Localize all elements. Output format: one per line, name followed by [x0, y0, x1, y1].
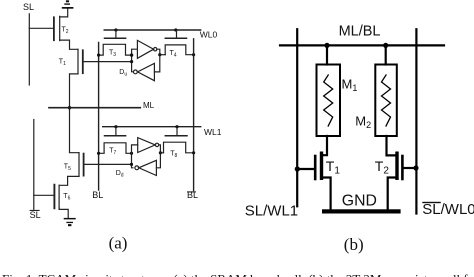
transistor T1 channel [77, 49, 79, 74]
node dot WL1-T8 [175, 125, 178, 128]
transistor T8 channel hat [164, 142, 194, 153]
label T6 [63, 193, 70, 202]
wire T2 source to T1 drain [60, 40, 78, 49]
svg-text:M1: M1 [342, 77, 358, 94]
wire forward output to T4 [154, 49, 159, 72]
svg-text:WL1: WL1 [204, 127, 222, 137]
svg-text:T1: T1 [59, 58, 66, 67]
label T5 [64, 164, 71, 173]
transistor T2 gate bar [401, 156, 404, 179]
label WL0 [200, 29, 218, 39]
svg-text:T5: T5 [64, 164, 71, 173]
wire T1 gate wire [84, 61, 132, 63]
wire ML line [49, 107, 140, 109]
transistor T6 gate bar [53, 185, 55, 209]
transistor T3 gate stub and bar [115, 30, 117, 37]
memristor M1 box [317, 65, 341, 137]
node SL label [23, 2, 34, 12]
node dot T7 left [97, 152, 100, 155]
wire T1 gate wire [298, 168, 314, 170]
svg-text:Du: Du [119, 69, 127, 78]
svg-text:(a): (a) [109, 234, 128, 253]
svg-text:Dd: Dd [116, 170, 124, 179]
ground symbol [64, 218, 76, 226]
transistor T2 channel [59, 16, 61, 40]
node dot T1 gate [295, 166, 300, 171]
svg-text:SL/WL1: SL/WL1 [245, 203, 298, 220]
label T2b [375, 158, 390, 177]
wire T2 gate wire [404, 167, 416, 169]
label WL1 [204, 127, 222, 137]
label Dd [116, 170, 124, 179]
svg-text:ML: ML [143, 101, 155, 110]
transistor T7 gate stub and bar [115, 127, 117, 135]
svg-text:ML/BL: ML/BL [339, 24, 381, 40]
node dot T4 stub [158, 53, 161, 56]
label T7 [109, 148, 116, 157]
node dot WL1-T7 [114, 125, 117, 128]
wire ML/BL rail [280, 44, 444, 46]
label T3 [109, 49, 116, 58]
transistor T4 channel hat [165, 45, 193, 55]
label ML/BL [339, 24, 381, 40]
label T2 [62, 27, 69, 36]
label T8 [170, 151, 177, 160]
wire SL vertical line [28, 14, 30, 85]
label SLbar/WL0 [422, 201, 474, 218]
transistor T5 channel [78, 153, 80, 177]
memristor M2 box [375, 65, 397, 137]
label BL [92, 190, 103, 200]
memristor M2 zigzag [382, 75, 391, 126]
transistor T8 gate stub and bar [176, 127, 178, 135]
svg-text:T2: T2 [375, 158, 390, 177]
wire SL/WL1 vertical line [296, 29, 298, 206]
label BLbar [187, 190, 198, 200]
label GND [342, 193, 377, 210]
wire T2 drain to VDD [60, 9, 68, 17]
wire M2 bottom to T2 drain [387, 136, 398, 155]
transistor T1 channel bar [320, 153, 323, 178]
svg-text:T3: T3 [109, 49, 116, 58]
transistor T7 channel hat [99, 143, 132, 154]
wire T8 left stub [160, 152, 163, 154]
inverter forward bottom bubble [155, 143, 158, 146]
label SLbar [30, 210, 41, 220]
transistor T3 channel hat [99, 44, 132, 55]
wire M1 top [326, 45, 328, 64]
wire T5 gate wire [85, 163, 132, 165]
inverter feedback top triangle [138, 63, 155, 80]
node dot T2 gate [413, 165, 418, 170]
label M1 [342, 77, 358, 94]
wire M1 bottom to T1 drain [322, 136, 328, 155]
power VDD symbol [62, 0, 74, 8]
transistor T1 gate bar [82, 50, 84, 73]
svg-text:Fig. 1. TCAM circuit struct: Fig. 1. TCAM circuit structures: (a) the… [2, 272, 474, 277]
node dot WL0-T3 [114, 28, 117, 31]
ground GND bar [322, 209, 401, 213]
inverter forward top triangle [137, 40, 153, 58]
node junction dot ML [68, 106, 71, 109]
label ML [143, 101, 155, 110]
wire T4 left stub [160, 54, 165, 56]
wire BLbar vertical line [193, 39, 195, 191]
svg-text:SL/WL0: SL/WL0 [422, 201, 474, 218]
svg-text:M2: M2 [355, 114, 371, 131]
label SL/WL1 [245, 203, 298, 220]
transistor Q T2 gate bar [53, 17, 55, 40]
wire SLbar vertical line [33, 120, 35, 210]
wire forward output to T8 [156, 145, 160, 168]
label T1 [59, 58, 66, 67]
node dot T7 right [130, 152, 133, 155]
node dot T4 right [192, 53, 195, 56]
inverter feedback top bubble [134, 70, 138, 74]
svg-text:T2: T2 [62, 27, 69, 36]
transistor T1 gate bar [314, 156, 317, 179]
wire latch left node vertical top [132, 49, 137, 72]
svg-text:BL: BL [187, 190, 198, 200]
inverter feedback bottom bubble [135, 166, 139, 170]
svg-text:WL0: WL0 [200, 29, 218, 39]
node dot rail-M2 [383, 43, 388, 48]
svg-text:T8: T8 [170, 151, 177, 160]
wire BL vertical line [98, 43, 100, 191]
wire T2 gate wire [29, 27, 53, 29]
svg-text:BL: BL [92, 190, 103, 200]
wire M2 top [385, 45, 387, 64]
wire T2 source to GND [388, 178, 397, 210]
wire T6 gate wire [34, 194, 53, 196]
svg-text:(b): (b) [344, 235, 364, 254]
wire WL0 line [104, 29, 201, 31]
wire latch left node vertical bottom [132, 145, 138, 168]
inverter forward top bubble [154, 48, 157, 51]
node dot WL0-T4 [174, 28, 177, 31]
memristor M1 zigzag [324, 75, 333, 126]
node dot T8 right [192, 151, 195, 154]
node dot rail-M1 [324, 43, 329, 48]
wire T1 source to GND [322, 178, 331, 210]
svg-text:T7: T7 [109, 148, 116, 157]
node dot T3 left [97, 54, 100, 57]
transistor T5 gate bar [83, 154, 85, 176]
inverter forward bottom triangle [138, 138, 156, 153]
wire WL1 line [103, 126, 201, 128]
label M2 [355, 114, 371, 131]
node dot T8 stub [159, 151, 162, 154]
node dot Du stub [130, 54, 133, 57]
wire T5 source to T6 drain [59, 176, 79, 185]
transistor T6 channel [58, 185, 60, 208]
wire SLbar/WL0 vertical line [415, 29, 417, 213]
inverter feedback bottom triangle [139, 160, 157, 175]
transistor T2 channel bar [395, 153, 398, 178]
svg-text:T4: T4 [170, 50, 177, 59]
svg-text:GND: GND [342, 193, 377, 210]
svg-text:T1: T1 [326, 158, 341, 177]
svg-text:SL: SL [30, 210, 41, 220]
label Du [119, 69, 127, 78]
svg-text:SL: SL [23, 2, 34, 12]
wire T1 source down to T5 drain [70, 74, 80, 153]
transistor T4 gate stub and bar [176, 30, 178, 37]
svg-text:T6: T6 [63, 193, 70, 202]
wire T6 source to ground [59, 208, 68, 218]
node dot Du gate join [130, 60, 133, 63]
label T1b [326, 158, 341, 177]
node dot Dd gate join [130, 163, 133, 166]
label T4 [170, 50, 177, 59]
node dot T3 right [130, 54, 133, 57]
